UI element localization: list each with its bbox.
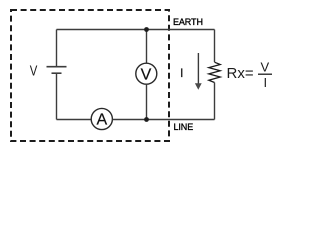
battery V short plate [52,72,62,74]
node junction bottom [144,117,149,122]
wire bottom left (battery to ammeter) [57,119,92,121]
wire battery positive lead [56,30,58,67]
svg-text:I: I [263,75,267,90]
svg-text:A: A [96,111,107,128]
svg-text:V: V [260,59,269,74]
svg-text:V: V [30,62,38,79]
svg-text:V: V [141,66,152,83]
wire battery negative lead [56,73,58,119]
wire top (battery to resistor, node EARTH) [57,29,215,31]
resistor Rx zigzag [209,62,220,82]
voltmeter V1 circle [136,63,157,84]
svg-text:I: I [180,66,183,80]
svg-text:EARTH: EARTH [173,17,203,27]
current direction arrow [197,53,199,85]
wire voltmeter branch top [146,30,148,64]
formula fraction bar [258,73,272,75]
dashed boundary box [11,10,169,141]
wire resistor bottom lead [214,83,216,120]
svg-text:LINE: LINE [174,122,194,132]
svg-text:Rx=: Rx= [227,65,254,82]
battery V long plate [47,66,67,68]
wire bottom right (ammeter to resistor, node LINE) [112,119,214,121]
wire resistor top lead [214,30,216,63]
wire voltmeter branch bottom [146,84,148,119]
ammeter A1 circle [91,108,112,129]
node junction top [144,27,149,32]
